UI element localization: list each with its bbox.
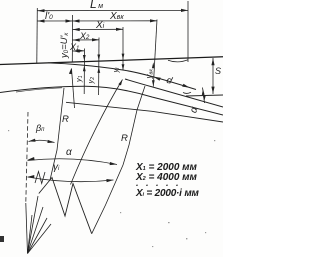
svg-text:α: α [188,106,200,115]
svg-text:y0=U'к: y0=U'к [59,32,70,59]
svg-text:yi: yi [111,67,121,74]
svg-text:yвк: yвк [145,69,155,80]
svg-text:y1: y1 [74,75,84,83]
svg-text:d: d [165,75,174,87]
svg-text:y2: y2 [86,77,96,85]
